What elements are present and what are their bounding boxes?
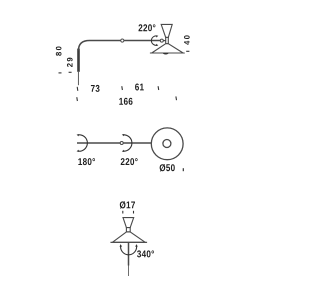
plan arm line [77,142,152,144]
label diameter 50 [160,164,175,171]
rotation arc 340 [121,245,137,254]
rotation arc 180 plan [78,135,88,151]
shade cone side view [152,44,183,53]
wall cable below arm [77,72,79,85]
dimension 61 text [135,84,144,91]
label 180 deg [78,158,95,165]
arrowhead top of 220 arc [156,35,159,37]
arrowhead right of 340 arc [135,244,138,247]
arrowhead top of 220 plan arc [122,134,125,136]
tick bottom of 29 [69,71,72,73]
funnel upper cone side view [161,24,172,37]
wall arm vertical tube [77,49,80,72]
elbow joint circle on arm [121,39,124,42]
neck rect side view [166,37,169,43]
tick d17 left [122,211,124,214]
shade rim front view [110,241,147,243]
tick d17 right [133,211,135,214]
label 340 deg [137,250,154,257]
arrowhead bottom of 220 plan arc [122,150,125,152]
stem [128,242,130,265]
dimension 73 text [91,85,100,92]
tick row1 mid [121,86,124,90]
arm curve and horizontal bar [79,41,161,51]
shade inner circle plan [163,140,171,148]
dimension 29 text [67,58,73,67]
label 220 deg side view [139,24,156,31]
arrowhead bottom of 180 arc [77,150,80,152]
tick row2 right [175,96,178,100]
bulb bump under shade [163,53,169,55]
shade rim base line [150,52,185,54]
arrowhead left of 340 arc [120,244,123,247]
tick row1 left [76,87,79,91]
dimension 166 text [119,98,132,105]
rotation arc 220 plan [123,135,132,151]
shade outer circle plan [151,128,183,160]
tick row2 left [76,97,79,101]
arrowhead top of 180 arc [77,134,80,136]
link pivot to neck [163,40,166,42]
funnel front view [123,218,134,228]
label diameter 17 [120,201,135,208]
dimension 40 text [184,35,190,44]
pivot circle at shade [160,39,163,42]
shade cone front view [112,232,145,242]
stem thin end [127,266,129,277]
arrowhead bottom of 220 arc [156,44,159,46]
tick row1 right [157,86,160,90]
dimension 80 text [56,46,62,55]
neck rect front view [126,228,130,232]
rotation arc 220 side view [151,36,157,45]
elbow circle plan [120,142,123,145]
tick right of diameter 50 label [182,168,184,171]
tick bottom of 80 [59,72,62,74]
label 220 deg plan [121,158,138,165]
tick below 40 [186,50,189,52]
